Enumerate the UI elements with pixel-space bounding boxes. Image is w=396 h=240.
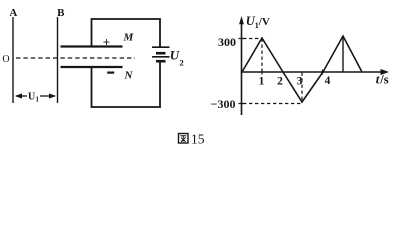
tick t=1 [261, 70, 263, 75]
svg-text:/s: /s [379, 73, 388, 87]
wire loop bottom [91, 106, 161, 108]
label 1 [259, 76, 265, 88]
capacitor plate N [61, 66, 123, 68]
plus polarity label [103, 35, 110, 50]
svg-text:M: M [123, 32, 135, 44]
U1 dimension arrow between A and B [15, 93, 56, 98]
svg-text:U: U [170, 48, 180, 63]
label N [124, 70, 134, 82]
svg-text:B: B [57, 7, 65, 19]
plate line B [57, 17, 59, 103]
label U1 [28, 92, 40, 104]
solid vertical at second peak [342, 37, 344, 72]
graph x-axis [241, 69, 389, 75]
svg-text:1: 1 [36, 96, 40, 104]
caption number 15 [191, 132, 205, 147]
label U2 [170, 48, 184, 68]
dashed axis line through plates [16, 57, 135, 59]
tick t=4 [322, 70, 324, 75]
minus polarity label [107, 71, 114, 73]
label -300 [211, 97, 236, 111]
capacitor plate M [61, 45, 123, 47]
wire top plate to loop top [91, 19, 93, 46]
wire loop right lower [159, 61, 161, 107]
svg-text:O: O [2, 54, 9, 65]
svg-text:/V: /V [258, 16, 270, 28]
tick -300 on y-axis [239, 103, 245, 105]
svg-text:U: U [28, 92, 35, 103]
label M [123, 32, 135, 44]
svg-text:15: 15 [191, 132, 205, 147]
svg-text:2: 2 [277, 76, 283, 88]
plate line A [12, 17, 14, 103]
tick 300 on y-axis [239, 38, 245, 40]
svg-text:1: 1 [259, 76, 265, 88]
svg-text:N: N [124, 70, 134, 82]
label 3 [297, 76, 303, 88]
graph y-axis [239, 16, 244, 115]
svg-text:2: 2 [180, 58, 184, 68]
wire loop right upper [159, 19, 161, 47]
wire loop top [91, 18, 161, 20]
battery U2 [152, 47, 170, 61]
svg-text:+: + [103, 35, 110, 50]
svg-text:−300: −300 [211, 97, 236, 111]
node A [9, 7, 17, 19]
label 4 [325, 75, 331, 87]
graph y-axis label U1/V [246, 14, 270, 30]
label 2 [277, 76, 283, 88]
node O [2, 54, 9, 65]
U1 waveform [242, 36, 362, 102]
caption glyph tu (figure) [179, 134, 189, 144]
dashed drop to minimum [301, 73, 303, 103]
dashed level +300 to first peak [243, 38, 262, 40]
dashed drop from first peak [261, 39, 263, 72]
svg-text:t: t [376, 72, 380, 87]
wire bottom plate to loop bottom [91, 68, 93, 107]
label 300 [218, 35, 236, 49]
dashed level -300 to minimum [243, 103, 301, 105]
graph x-axis label t/s [376, 72, 389, 87]
svg-text:4: 4 [325, 75, 331, 87]
svg-text:300: 300 [218, 35, 236, 49]
node B [57, 7, 65, 19]
